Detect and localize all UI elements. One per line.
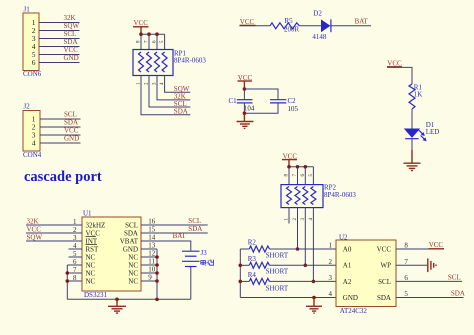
wire U1 pin5 stub [69,256,83,258]
junction [115,298,119,302]
svg-text:NC: NC [86,277,96,285]
wire U1 pin10 [141,272,157,274]
junction [155,255,159,259]
svg-text:BAT: BAT [173,232,187,240]
power port VCC (RP2) [282,152,297,166]
wire J2 pin4 [40,142,81,144]
junction [66,279,70,283]
svg-text:SQW: SQW [27,234,43,242]
wire U2 pin5 [396,297,464,299]
svg-text:DS3231: DS3231 [84,291,107,299]
wire to R2 [240,248,249,250]
wire U1 pin16 [141,224,208,226]
svg-text:CON4: CON4 [23,151,42,159]
svg-text:32K: 32K [64,14,76,22]
junction [287,165,291,169]
svg-text:7: 7 [404,258,408,266]
IC U2 AT24C32 [336,234,396,316]
svg-text:9: 9 [148,274,152,282]
svg-text:SDA: SDA [451,290,465,298]
wire U1 pin12 [141,256,157,258]
svg-text:NC: NC [128,277,138,285]
svg-text:VBAT: VBAT [120,237,139,245]
svg-text:R3: R3 [248,255,257,263]
svg-text:8P4R-0603: 8P4R-0603 [174,57,206,65]
wire RP2 pin7 [297,167,299,185]
svg-text:2: 2 [329,258,333,266]
wire RP2 pin4 to A2 [312,208,314,282]
diode D2 4148 [312,9,331,41]
wire U1 pin4 stub [69,248,83,250]
wire U1 pin8 [67,280,82,282]
svg-text:SCL: SCL [188,217,201,225]
wire U1 pin9 [141,280,157,282]
wire NC tie left [66,265,68,299]
svg-text:VCC: VCC [64,127,79,135]
connector J1 [23,6,42,79]
wire J2 pin3 [40,134,81,136]
wire RP2 pin1 stub [288,208,290,224]
svg-text:104: 104 [244,105,255,113]
svg-text:cascade port: cascade port [24,169,102,185]
wire RP1 pin7 [148,34,150,49]
connector J2 [23,102,42,159]
svg-text:4: 4 [32,138,36,147]
svg-text:VCC: VCC [27,226,42,234]
wire VCC to R1 [387,67,412,84]
wire RP1 pin2 to SCL [149,76,190,108]
svg-text:SCL: SCL [64,111,77,119]
wire R3 to U2 pin2 [269,264,336,266]
junction [296,247,300,251]
wire RP1 pin8 [140,34,142,49]
svg-text:SDA: SDA [188,225,202,233]
junction [243,87,247,91]
battery J3 [182,249,207,266]
junction [155,298,159,302]
svg-text:SCL: SCL [378,278,391,286]
svg-text:SDA: SDA [64,119,78,127]
wire VCC to C1 [243,89,245,99]
wire J1 pin1 [39,22,80,24]
junction [155,263,159,267]
svg-text:12: 12 [148,250,156,258]
svg-text:4: 4 [329,290,333,298]
capacitor C1 104 [229,97,255,113]
junction [155,271,159,275]
wire J2 pin1 [40,118,81,120]
svg-text:VCC: VCC [377,245,392,253]
wire U2 pin8 [396,248,429,250]
resistor R2 SHORT [248,239,289,260]
svg-text:8P4R-0603: 8P4R-0603 [324,191,356,199]
wire RP1 top bus [141,33,165,35]
svg-text:15: 15 [148,226,156,234]
power port VCC (C1 C2) [238,74,253,89]
svg-text:R2: R2 [248,239,257,247]
wire U1 pin11 [141,264,157,266]
wire J1 pin3 [39,38,80,40]
wire J2 pin2 [40,126,81,128]
svg-text:SCL: SCL [125,221,138,229]
svg-text:16: 16 [148,218,156,226]
svg-text:5: 5 [404,290,408,298]
wire RP1 pin1 to SDA [141,76,190,115]
svg-text:105: 105 [288,105,299,113]
wire NC tie right [156,249,158,299]
svg-text:NC: NC [86,269,96,277]
wire U1 pin15 [141,232,208,234]
svg-text:BAT: BAT [355,18,369,26]
svg-text:SDA: SDA [377,294,391,302]
svg-text:11: 11 [148,258,155,266]
svg-text:NC: NC [128,253,138,261]
svg-text:SCL: SCL [448,273,461,281]
ground (U1) [108,299,126,313]
junction [304,264,308,268]
svg-text:VCC: VCC [64,46,79,54]
wire J1 pin5 [39,54,80,56]
junction [155,279,159,283]
svg-text:SCL: SCL [64,30,77,38]
svg-text:VCC: VCC [429,241,444,249]
svg-text:32kHZ: 32kHZ [86,221,106,229]
svg-text:J2: J2 [24,102,31,110]
wire RP1 pin5 [164,34,166,49]
wire RP2 pin5 [312,167,314,185]
resistor R4 SHORT [248,271,289,292]
wire A0 net vertical [239,249,241,298]
wire U1 pin2 [26,232,82,234]
power port VCC (R5 chain) [240,18,256,26]
wire RP1 pin4 to SQW [165,76,191,93]
svg-text:1K: 1K [414,90,423,98]
wire RP2 pin6 [304,167,306,185]
junction [243,111,247,115]
wire D1 to ground [411,139,413,150]
ground (C1 C2) [237,113,254,128]
svg-text:C1: C1 [229,97,238,105]
svg-text:GND: GND [64,54,79,62]
wire to R3 [240,264,249,266]
svg-text:SDA: SDA [174,107,188,115]
svg-text:A2: A2 [343,278,352,286]
junction [312,296,316,300]
LED D1 [404,121,440,141]
svg-text:J3: J3 [201,249,208,257]
svg-text:R4: R4 [248,271,257,279]
svg-text:GND: GND [123,245,138,253]
wire branch to C2 [244,89,278,99]
wire GND to U2 pin4 [240,297,336,299]
wire U2 pin6 [396,280,462,282]
wire RP1 pin6 [156,34,158,49]
ground (D1) [404,163,421,170]
svg-text:6: 6 [404,274,408,282]
svg-text:RST: RST [86,245,100,253]
svg-text:14: 14 [148,234,156,242]
wire U1 pin1 [26,224,82,226]
svg-text:GND: GND [64,135,79,143]
svg-text:NC: NC [86,253,96,261]
wire U1 pin3 [26,240,82,242]
junction [66,271,70,275]
wire RP2 pin3 to A1 [304,208,306,266]
svg-text:U1: U1 [83,210,92,218]
wire D2 to BAT [332,25,372,27]
wire battery to bus [190,267,192,299]
junction [239,264,243,268]
wire U1 pin7 [67,272,82,274]
wire U1 pin6 [67,264,82,266]
svg-text:8: 8 [404,242,408,250]
resistor R3 SHORT [248,255,289,276]
svg-text:INT: INT [86,237,98,245]
svg-text:SQW: SQW [64,22,80,30]
svg-text:VCC: VCC [134,19,149,27]
wire U1 pin14 to battery [141,241,191,251]
wire R4 to U2 pin3 [269,280,336,282]
svg-text:SHORT: SHORT [266,251,289,259]
svg-text:SHORT: SHORT [266,268,289,276]
svg-text:VCC: VCC [86,229,101,237]
junction [139,32,143,36]
wire R2 to U2 pin1 [269,248,336,250]
wire U2 pin7 [396,264,427,266]
wire J1 pin4 [39,46,80,48]
svg-text:WP: WP [381,262,392,270]
svg-text:NC: NC [86,261,96,269]
wire RP2 pin2 to A0 [297,208,299,249]
wire J1 pin6 [39,62,80,64]
svg-text:A1: A1 [343,262,352,270]
capacitor C2 105 [270,97,299,113]
wire R1 to D1 [411,109,413,129]
svg-text:SHORT: SHORT [266,284,289,292]
wire J1 pin2 [39,30,80,32]
ground (WP, rotated) [428,258,436,272]
ground (U2) [306,298,322,314]
svg-text:AT24C32: AT24C32 [340,307,368,315]
wire RP2 pin8 [288,167,290,185]
junction [147,32,151,36]
power port VCC (RP1) [133,19,149,34]
svg-text:LED: LED [426,128,440,136]
svg-text:A0: A0 [343,245,352,253]
svg-text:3: 3 [329,274,333,282]
wire C2 to gnd node [244,103,278,113]
wire RP1 pin3 to 32K [157,76,190,100]
resistor R5 200R [270,17,300,34]
power port VCC (U2) [429,241,445,249]
wire R5 to D2 [299,25,321,27]
junction [304,165,308,169]
junction [296,165,300,169]
svg-text:13: 13 [148,242,156,250]
svg-text:J1: J1 [24,6,31,14]
svg-text:SDA: SDA [124,229,138,237]
resistor R1 1K [409,83,422,109]
label dianchi (battery) [201,260,214,265]
junction [312,280,316,284]
wire U1 pin13 [141,248,157,250]
svg-text:200R: 200R [284,26,300,34]
wire to R4 [240,280,249,282]
wire U1 bottom bus [67,298,191,300]
svg-text:R5: R5 [285,17,294,25]
power port VCC (R1 LED) [387,60,402,68]
svg-text:6: 6 [32,58,36,67]
svg-text:C2: C2 [288,97,297,105]
svg-text:CON6: CON6 [23,70,42,78]
svg-text:SDA: SDA [64,38,78,46]
svg-text:1: 1 [329,242,333,250]
wire C1 to gnd node [243,103,245,113]
svg-text:NC: NC [128,261,138,269]
svg-text:D2: D2 [313,9,322,17]
svg-text:NC: NC [128,269,138,277]
svg-text:GND: GND [343,294,358,302]
svg-text:32K: 32K [27,218,39,226]
svg-text:10: 10 [148,266,156,274]
wire RP2 top bus [289,166,313,168]
resistor pack RP2 [281,184,356,208]
svg-text:4148: 4148 [312,33,327,41]
junction [239,280,243,284]
wire VCC to R5 [240,25,271,27]
resistor pack RP1 [133,49,206,75]
junction [155,32,159,36]
IC U1 DS3231 [82,210,141,300]
